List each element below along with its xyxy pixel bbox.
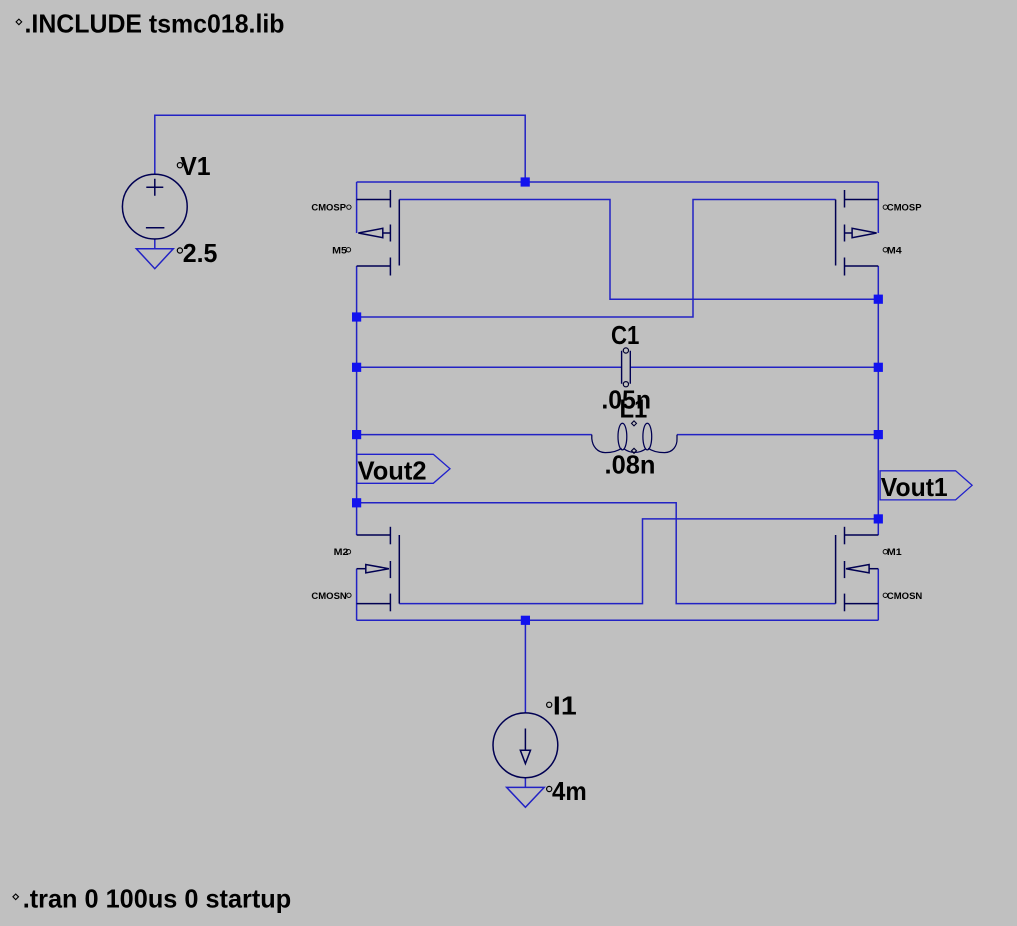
wire bottom rail tail node — [357, 619, 879, 621]
wire right rail Vout1 node — [877, 266, 879, 535]
ground below V1 — [136, 249, 173, 269]
wire tail to I1 — [524, 620, 526, 713]
svg-text:.tran 0 100us 0 startup: .tran 0 100us 0 startup — [23, 884, 292, 914]
wire left rail Vout2 node — [356, 266, 358, 535]
wire M5 gate to Vout1 node — [399, 200, 878, 300]
wire left rail lower (M2 source/bulk) — [356, 569, 358, 621]
svg-text:Vout2: Vout2 — [358, 455, 427, 485]
svg-text:.08n: .08n — [605, 450, 656, 480]
ground below I1 — [507, 787, 545, 807]
transistor M1 (NMOS) — [836, 527, 879, 612]
junction Vout2 A — [352, 312, 361, 321]
junction Vout2 B — [352, 363, 361, 372]
svg-text:M5: M5 — [332, 245, 348, 256]
label M5 name — [332, 245, 350, 256]
svg-text:4m: 4m — [552, 776, 587, 806]
wire C1 left — [357, 366, 622, 368]
spice directive .tran — [13, 884, 291, 914]
wire M2 gate to Vout1 node — [399, 519, 878, 604]
junction Vout1 C — [874, 430, 883, 439]
label V1 value 2.5 — [177, 238, 217, 268]
label I1 name — [547, 690, 577, 720]
transistor M2 (NMOS) — [357, 527, 400, 612]
junction Vout1 B — [874, 363, 883, 372]
current source I1 — [493, 713, 558, 778]
transistor M4 (PMOS) — [836, 190, 879, 276]
svg-text:C1: C1 — [611, 320, 639, 350]
wire V1 to top rail — [155, 115, 525, 182]
label M2 name — [334, 547, 351, 558]
wire top rail VDD — [357, 181, 879, 183]
svg-text:.INCLUDE tsmc018.lib: .INCLUDE tsmc018.lib — [25, 8, 285, 38]
wire V1 to ground — [154, 239, 156, 249]
wire L1 left — [357, 434, 592, 436]
svg-text:L1: L1 — [620, 393, 648, 423]
svg-text:Vout1: Vout1 — [881, 472, 948, 502]
inductor L1 — [592, 421, 677, 453]
label I1 value 4m — [547, 776, 587, 806]
junction Vout2 C — [352, 430, 361, 439]
svg-text:CMOSP: CMOSP — [311, 203, 346, 214]
svg-text:2.5: 2.5 — [183, 238, 218, 268]
label M5 model CMOSP — [311, 203, 351, 214]
voltage source V1 — [122, 174, 187, 239]
svg-text:M2: M2 — [334, 547, 349, 558]
wire left rail upper (M5 source/bulk) — [356, 182, 358, 233]
net flag Vout1 — [880, 471, 972, 502]
label V1 name — [177, 151, 210, 181]
capacitor C1 — [622, 348, 631, 387]
svg-text:V1: V1 — [180, 151, 210, 181]
junction VDD top — [521, 177, 530, 186]
junction Vout2 D — [352, 498, 361, 507]
label M4 model CMOSP — [883, 203, 922, 214]
label M1 model CMOSN — [883, 591, 922, 602]
wire M4 gate to Vout2 node — [357, 200, 836, 318]
net flag Vout2 — [357, 454, 450, 485]
junction tail node — [521, 616, 530, 625]
wire I1 to ground — [524, 778, 526, 788]
junction Vout1 D — [874, 514, 883, 523]
svg-text:I1: I1 — [553, 690, 577, 720]
junction Vout1 A — [874, 295, 883, 304]
wire right rail lower (M1 source/bulk) — [877, 569, 879, 621]
label M4 name — [883, 245, 902, 256]
wire C1 right — [630, 366, 878, 368]
label M2 model CMOSN — [311, 591, 351, 602]
svg-text:M4: M4 — [887, 245, 903, 256]
label M1 name — [883, 547, 902, 558]
svg-text:CMOSN: CMOSN — [311, 591, 346, 602]
wire right rail upper (M4 source/bulk) — [877, 182, 879, 233]
svg-text:CMOSN: CMOSN — [887, 591, 922, 602]
spice directive .INCLUDE — [16, 8, 284, 38]
transistor M5 (PMOS) — [357, 190, 400, 276]
svg-text:CMOSP: CMOSP — [887, 203, 922, 214]
wire Vout2 node to M1 gate — [357, 503, 836, 604]
svg-text:M1: M1 — [887, 547, 903, 558]
wire L1 right — [677, 434, 878, 436]
